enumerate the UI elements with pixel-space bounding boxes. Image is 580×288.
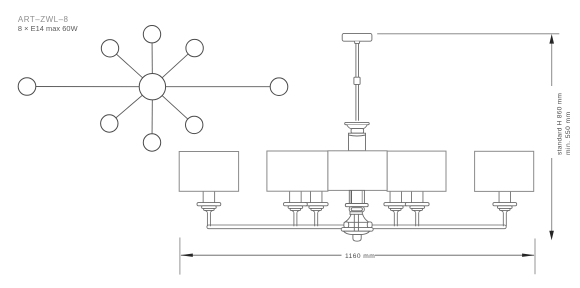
dimension height line lower [551,158,553,232]
bulb NW [101,40,118,57]
dimension width arrow right [522,254,535,257]
candle holder mid-left front [284,191,308,226]
wire arm SE [152,87,194,125]
svg-text:ART–ZWL–8: ART–ZWL–8 [18,15,69,24]
bulb SE [186,116,203,133]
bulb SW [101,115,118,132]
shade S4 [387,151,446,191]
rod [356,43,359,120]
bulb N [143,26,160,43]
hub bowl [344,231,370,234]
rod collar [354,77,360,84]
svg-text:standard H 860 mm: standard H 860 mm [556,93,563,155]
wire arm E [152,86,279,88]
central collar [350,212,362,215]
hub stem [354,214,358,231]
shade S1 [179,152,238,192]
arm bar left [207,225,345,229]
wire arm W [27,86,152,88]
hub cuff left [344,222,349,228]
candle holder under left shade [197,191,221,226]
wire arm N [151,34,153,86]
central column below shade [341,190,373,241]
dimension height extension line top [377,33,559,35]
central candle body [349,190,364,203]
shade S3 center [328,151,387,191]
bulb NE [186,39,203,56]
svg-text:1160 mm: 1160 mm [345,253,375,260]
spider disc [345,122,370,124]
candle holder mid-left back [304,191,328,226]
dimension width line left part [181,254,342,256]
wire arm S [151,87,153,143]
bulb W [18,78,36,96]
top view: arm spokes [27,34,279,142]
candle holder mid-right back [384,191,408,226]
wire arm NE [152,48,194,87]
central bobeche [345,204,368,207]
central torus inner [351,208,362,211]
hub band [341,228,373,232]
dimension width line right part [375,254,534,256]
bulb S [143,134,160,151]
candle holder under right shade [493,191,517,226]
hub cone [345,214,369,222]
spider taper [347,125,368,129]
column cylinder [349,133,366,151]
dimension height arrow up [549,34,554,44]
wire arm SW [109,87,152,124]
dimension width extension line left [179,238,181,275]
wire arm NW [110,48,152,86]
central torus ring [349,207,364,212]
shade S2 [267,151,328,191]
dimension height line upper [551,41,553,86]
arm bar right [370,225,506,229]
column cylinder top ellipse [349,135,366,136]
central candle inner lines [350,190,352,203]
arm bars [207,225,506,229]
dimension width arrow left [180,254,193,257]
dimension height arrow down [549,231,554,240]
shade S5 [475,151,534,191]
hub circle center [139,74,165,100]
hub cuff right [367,222,372,228]
hub knob [353,235,361,242]
canopy neck [354,41,359,43]
canopy [342,33,372,41]
candle holder mid-right front [405,191,429,226]
svg-text:8 × E14 max 60W: 8 × E14 max 60W [18,24,78,33]
side view [342,33,372,150]
bulb E [270,78,288,96]
spider ring [351,129,364,134]
dimension width extension line right [534,239,536,275]
svg-text:min. 550 mm: min. 550 mm [565,111,572,155]
